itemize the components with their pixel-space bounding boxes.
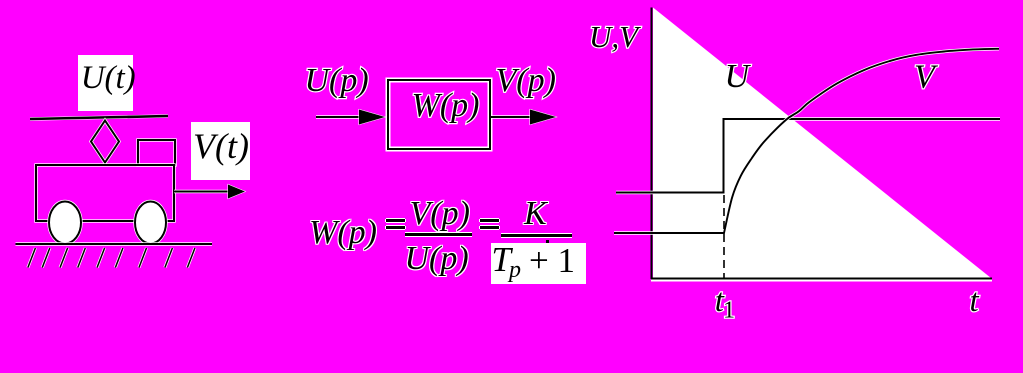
svg-text:V(p): V(p)	[496, 62, 556, 99]
formula term W(p)	[309, 214, 377, 252]
label U(t) text	[81, 60, 136, 97]
label V(p)	[496, 62, 556, 99]
artifact dot	[546, 240, 550, 244]
curve label U	[725, 58, 752, 95]
svg-text:V: V	[914, 59, 939, 96]
fraction bar 1	[405, 233, 472, 236]
axis label t	[970, 283, 980, 319]
label U(p)	[305, 62, 369, 99]
response curve V	[614, 49, 999, 233]
tick label t1	[715, 283, 735, 324]
ceiling line	[30, 116, 168, 119]
axis label U,V	[589, 19, 641, 54]
output arrow V(p)	[491, 110, 556, 125]
small block on cart	[138, 140, 175, 165]
dashed line at t1	[723, 195, 725, 278]
output arrow V(t)	[174, 185, 245, 199]
svg-text:t1: t1	[715, 283, 735, 324]
label W(p) in block	[412, 87, 480, 124]
fraction numerator K	[524, 195, 547, 233]
svg-text:W(p): W(p)	[412, 87, 480, 124]
fraction denominator U(p)	[405, 240, 469, 278]
equals sign 2	[480, 219, 499, 222]
label box V(t)	[191, 122, 250, 180]
right wheel	[135, 202, 166, 244]
fraction bar 2	[501, 234, 572, 237]
y axis	[651, 8, 653, 280]
ground hatching	[28, 248, 195, 268]
svg-text:U(p): U(p)	[305, 62, 369, 99]
equals sign 1	[386, 219, 405, 222]
input arrow U(p)	[316, 110, 385, 125]
svg-text:U,V: U,V	[589, 19, 641, 54]
graph white triangle	[653, 8, 991, 279]
svg-text:U: U	[725, 58, 752, 95]
left wheel	[49, 202, 81, 244]
ground line	[16, 242, 213, 245]
block W(p)	[388, 80, 490, 149]
label V(t) text	[193, 125, 249, 167]
cart body	[36, 165, 174, 221]
denominator text Tp+1	[492, 240, 521, 284]
fraction numerator V(p)	[410, 195, 470, 233]
spring diamond	[91, 121, 119, 163]
label box U(t)	[78, 55, 133, 111]
x axis	[651, 279, 992, 281]
curve label V	[914, 59, 939, 96]
denominator box Tp+1	[491, 243, 586, 284]
svg-text:t: t	[970, 283, 980, 319]
step input U polyline	[616, 119, 1000, 193]
